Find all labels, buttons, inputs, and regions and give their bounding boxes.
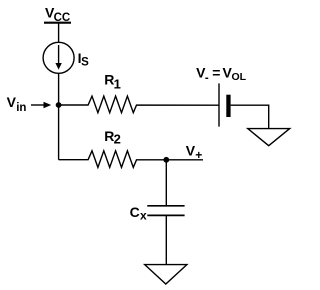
svg-text:-: - [205,72,209,84]
svg-text:1: 1 [114,76,121,91]
svg-text:in: in [16,102,26,114]
svg-text:=: = [212,65,220,81]
svg-text:2: 2 [114,132,121,147]
svg-text:OL: OL [232,71,247,83]
svg-text:V: V [7,94,17,110]
svg-text:C: C [130,204,140,220]
svg-text:+: + [195,148,202,162]
svg-text:S: S [81,56,89,68]
svg-text:x: x [140,209,147,223]
